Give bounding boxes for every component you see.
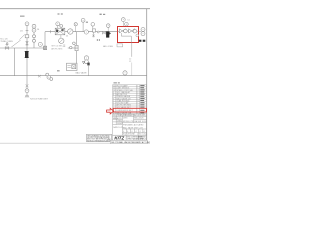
svg-text:DWG NO: DWG NO <box>139 136 147 138</box>
balloon 17 <box>141 32 145 36</box>
svg-text:AVL-1.5BL: AVL-1.5BL <box>103 45 114 48</box>
riser x45 <box>44 32 46 46</box>
parts list label specks <box>114 82 120 83</box>
circle on branch <box>70 46 72 48</box>
fitting tick on pipe <box>50 30 52 33</box>
svg-text:4: 4 <box>131 131 132 133</box>
gauge chain x34 <box>33 32 35 35</box>
solenoid valve dark on x27 <box>24 51 29 58</box>
valve bowtie before solenoid <box>102 31 105 34</box>
fitting label 1/4 <box>20 30 24 32</box>
wire drop x14.5 <box>14 48 16 76</box>
svg-text:4: 4 <box>140 131 141 133</box>
node tee x27 <box>26 26 28 97</box>
regulator box on x27 <box>25 35 29 38</box>
circle above box <box>73 42 76 45</box>
gauge small circle <box>33 35 36 38</box>
gauge small above pipe <box>91 23 95 27</box>
table remark dark blobs <box>140 85 144 113</box>
border frame bottom <box>0 142 150 144</box>
title block <box>113 116 147 135</box>
svg-text:KITZ: KITZ <box>114 136 124 141</box>
valve stub x93.5 <box>93 32 95 38</box>
speed controller box on riser <box>75 45 78 50</box>
logo row <box>113 135 147 140</box>
valve V2 bowtie vertical <box>26 42 29 45</box>
svg-text:4: 4 <box>127 131 128 133</box>
svg-text:N.B 1/4 TUBE UNIT: N.B 1/4 TUBE UNIT <box>30 98 49 100</box>
note box bottom left <box>86 134 111 141</box>
balloon 16 <box>141 28 145 32</box>
balloon 9 <box>46 73 49 76</box>
drain note text <box>30 98 49 100</box>
title block header row <box>113 114 147 116</box>
circle below pipe <box>50 78 53 81</box>
balloon 14 <box>121 18 125 22</box>
svg-text:BALL VALVE: BALL VALVE <box>76 72 88 75</box>
drain chain below pipe x27 <box>26 84 29 87</box>
drain end symbol <box>25 95 29 97</box>
balloon 2 <box>32 24 36 28</box>
small label box <box>117 44 123 47</box>
title block text <box>113 114 147 136</box>
table row texts <box>113 85 138 115</box>
bottom strip <box>110 140 147 143</box>
balloon 4 <box>38 42 42 46</box>
svg-text:DATE 10.22: DATE 10.22 <box>113 126 123 129</box>
svg-text:4: 4 <box>144 131 145 133</box>
balloon 13 <box>106 24 110 28</box>
gauge G1 on pipe <box>68 29 73 34</box>
red arrow <box>107 108 114 114</box>
svg-text:4: 4 <box>136 131 137 133</box>
balloon 10 on pipe right <box>123 71 127 75</box>
balloon 11 <box>25 89 29 93</box>
balloon 7 <box>74 23 77 26</box>
balloon 3 <box>32 28 36 32</box>
parts table <box>113 85 147 114</box>
branch run y48 <box>68 47 77 49</box>
svg-text:4: 4 <box>123 131 124 133</box>
lower pipe y75.7 <box>0 75 147 77</box>
fitting circle on pipe <box>97 31 99 33</box>
balloon on pipe x86 <box>84 30 88 34</box>
border frame top <box>0 8 150 10</box>
wire inside box <box>118 31 120 33</box>
red highlighted row <box>113 108 146 112</box>
label text under pipe <box>66 36 69 38</box>
svg-text:1/4: 1/4 <box>66 36 69 38</box>
balloon 15 <box>125 22 129 26</box>
label N.C. text <box>0 39 13 43</box>
balloon 6 <box>60 25 63 28</box>
balloon 5 <box>56 22 60 26</box>
small dark box <box>87 63 89 66</box>
valve V1 inlet bowtie <box>5 47 9 50</box>
svg-text:PNEUMATIC ACTUATED: PNEUMATIC ACTUATED <box>123 124 144 127</box>
riser x77 <box>76 32 78 46</box>
small circle right <box>136 34 139 37</box>
svg-text:SER 10-50: SER 10-50 <box>138 121 147 123</box>
zone labels top <box>20 13 105 16</box>
label 122 <box>129 58 132 62</box>
wire drop to lower pipe <box>88 65 90 76</box>
junction cluster dark <box>44 46 47 50</box>
svg-text:10K CTB BALL VALVE PNEUMATIC A: 10K CTB BALL VALVE PNEUMATIC ACT UNIT <box>111 141 150 144</box>
stub wire right of box <box>139 31 142 33</box>
tick marks labels <box>97 39 100 41</box>
gauge G2 with needle <box>59 38 64 43</box>
wire down from red box <box>131 43 133 57</box>
main pipe y31.7 <box>45 31 118 33</box>
dark port marks <box>139 40 142 42</box>
actuator triangle <box>82 61 84 64</box>
wire inlet pipe left y48 <box>0 47 45 49</box>
svg-text:BALL VALVE UNIT C-TB: BALL VALVE UNIT C-TB <box>123 126 144 129</box>
svg-text:DWG: DWG <box>123 118 128 120</box>
label AVL <box>103 45 114 48</box>
balloon 8 <box>84 56 88 60</box>
label 14 <box>37 29 40 31</box>
leader line <box>20 34 25 39</box>
filter-regulator box center <box>55 28 65 35</box>
svg-text:TUBE CONN: TUBE CONN <box>0 41 13 43</box>
actuator box B1 <box>67 63 78 70</box>
note text 2 lines <box>51 46 63 51</box>
border frame right <box>146 9 148 144</box>
label BALL VALVE <box>76 72 88 75</box>
gauge small circle2 <box>33 39 36 42</box>
balloon 1 <box>25 22 29 26</box>
label 1.24 <box>127 19 130 21</box>
balloon 12 <box>81 18 85 22</box>
svg-text:AIR FIL REG: AIR FIL REG <box>51 47 62 50</box>
valve tick on lower pipe <box>38 75 41 77</box>
leader line <box>12 40 21 47</box>
ejector E2 bowtie <box>129 29 135 33</box>
ejector E1 bowtie <box>119 29 125 33</box>
signature squiggle <box>107 139 113 140</box>
red highlight box <box>118 27 139 43</box>
solenoid valve S2 dark <box>106 31 111 37</box>
svg-text:SET 0.4 MPa: SET 0.4 MPa <box>51 46 63 48</box>
svg-text:EAC-10526: EAC-10526 <box>134 117 143 120</box>
